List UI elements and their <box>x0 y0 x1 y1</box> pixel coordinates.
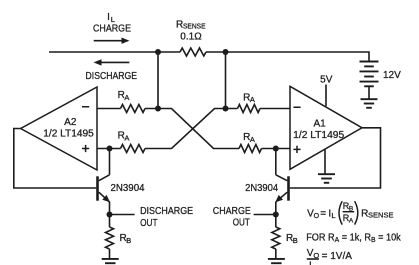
svg-text:L: L <box>331 211 335 220</box>
svg-text:I: I <box>107 12 110 23</box>
svg-text:A: A <box>124 133 129 142</box>
svg-text:=: = <box>320 208 326 219</box>
svg-text:1/2 LT1495: 1/2 LT1495 <box>43 128 94 139</box>
svg-text:OUT: OUT <box>140 218 158 229</box>
svg-text:A: A <box>250 135 255 144</box>
svg-text:A2: A2 <box>64 117 77 128</box>
svg-text:2N3904: 2N3904 <box>111 183 145 194</box>
svg-text:SENSE: SENSE <box>368 210 394 219</box>
svg-text:DISCHARGE: DISCHARGE <box>140 206 193 217</box>
svg-text:OUT: OUT <box>233 218 250 229</box>
svg-text:= 1V/A: = 1V/A <box>322 251 353 262</box>
svg-text:CHARGE: CHARGE <box>93 24 131 35</box>
svg-text:A: A <box>124 93 129 102</box>
svg-text:L: L <box>111 15 115 24</box>
svg-text:A1: A1 <box>313 119 326 130</box>
svg-text:FOR RA = 1k, RB = 10k: FOR RA = 1k, RB = 10k <box>306 232 401 244</box>
svg-text:A: A <box>250 95 255 104</box>
svg-text:5V: 5V <box>320 75 333 86</box>
svg-text:CHARGE: CHARGE <box>213 206 251 217</box>
svg-text:1/2 LT1495: 1/2 LT1495 <box>293 130 344 141</box>
svg-text:2N3904: 2N3904 <box>245 183 278 194</box>
svg-text:B: B <box>126 236 131 245</box>
svg-text:A: A <box>349 217 354 224</box>
svg-text:B: B <box>293 236 298 245</box>
svg-text:SENSE: SENSE <box>183 21 206 30</box>
svg-text:12V: 12V <box>383 70 401 81</box>
svg-text:0.1Ω: 0.1Ω <box>180 31 202 42</box>
svg-text:O: O <box>314 213 320 220</box>
svg-text:DISCHARGE: DISCHARGE <box>86 71 138 82</box>
